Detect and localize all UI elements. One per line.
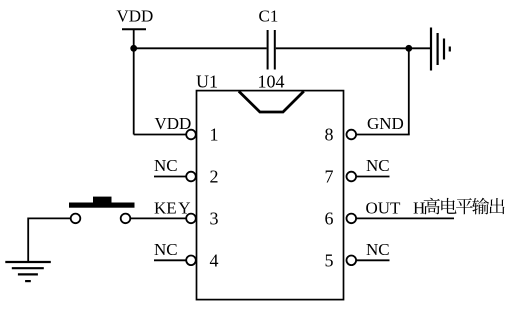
junction C1/GND node bbox=[405, 45, 412, 52]
svg-text:4: 4 bbox=[210, 251, 219, 271]
svg-text:Y: Y bbox=[178, 198, 190, 217]
wire pin7 NC stub bbox=[356, 176, 390, 178]
pin 7 circle bbox=[347, 172, 357, 182]
capacitor C1 bbox=[268, 30, 275, 70]
wire pin6 OUT stub bbox=[356, 217, 454, 219]
wire VDD rail down to pin 1 bbox=[133, 29, 135, 134]
pushbutton S1 actuator bar bbox=[69, 203, 135, 208]
svg-text:NC: NC bbox=[154, 240, 178, 259]
pin 2 circle bbox=[186, 172, 196, 182]
svg-text:6: 6 bbox=[325, 209, 334, 229]
svg-text:NC: NC bbox=[154, 156, 178, 175]
wire button left terminal to ground bbox=[28, 218, 70, 261]
pin 4 circle bbox=[186, 255, 196, 265]
junction VDD/C1 node bbox=[130, 45, 137, 52]
svg-text:1: 1 bbox=[210, 125, 219, 145]
ground (bottom left) bbox=[5, 262, 51, 281]
svg-text:VDD: VDD bbox=[155, 114, 192, 133]
wire VDD node to C1 left plate bbox=[134, 47, 267, 49]
wire pin8 GND stub bbox=[356, 134, 410, 136]
svg-text:NC: NC bbox=[366, 240, 390, 259]
pushbutton S1 left terminal bbox=[71, 214, 81, 224]
svg-text:U1: U1 bbox=[196, 72, 218, 92]
wire pin5 NC stub bbox=[356, 259, 390, 261]
svg-text:8: 8 bbox=[325, 125, 334, 145]
svg-text:GND: GND bbox=[367, 114, 404, 133]
pushbutton S1 plunger bump bbox=[93, 197, 112, 203]
pin 5 circle bbox=[347, 255, 357, 265]
pin 1 circle bbox=[186, 130, 196, 140]
pin 6 note Chinese 高电平输出 bbox=[424, 198, 505, 215]
pin 6 circle bbox=[347, 214, 357, 224]
wire node down to pin 8 stub bbox=[408, 48, 410, 134]
svg-text:7: 7 bbox=[325, 167, 334, 187]
svg-text:NC: NC bbox=[366, 156, 390, 175]
pin 8 circle bbox=[347, 130, 357, 140]
svg-text:3: 3 bbox=[210, 209, 219, 229]
svg-text:C1: C1 bbox=[259, 7, 279, 26]
svg-text:104: 104 bbox=[258, 72, 285, 92]
pin 3 circle bbox=[186, 214, 196, 224]
svg-text:VDD: VDD bbox=[117, 7, 154, 26]
svg-text:OUT: OUT bbox=[366, 199, 402, 218]
IC notch bbox=[239, 91, 304, 112]
svg-text:KE: KE bbox=[154, 198, 177, 217]
wire button to pin3 KEY stub bbox=[131, 217, 187, 219]
pushbutton S1 right terminal bbox=[121, 214, 131, 224]
wire pin1 VDD stub bbox=[134, 134, 187, 136]
svg-text:2: 2 bbox=[210, 167, 219, 187]
svg-text:5: 5 bbox=[325, 251, 334, 271]
svg-text:H: H bbox=[413, 199, 425, 218]
wire pin4 NC stub bbox=[154, 259, 186, 261]
IC U1 body bbox=[197, 91, 344, 300]
ground (top right, horizontal) bbox=[431, 28, 450, 71]
power flag VDD bbox=[117, 7, 154, 30]
wire C1 right plate to ground bbox=[276, 47, 430, 49]
wire pin2 NC stub bbox=[154, 176, 186, 178]
